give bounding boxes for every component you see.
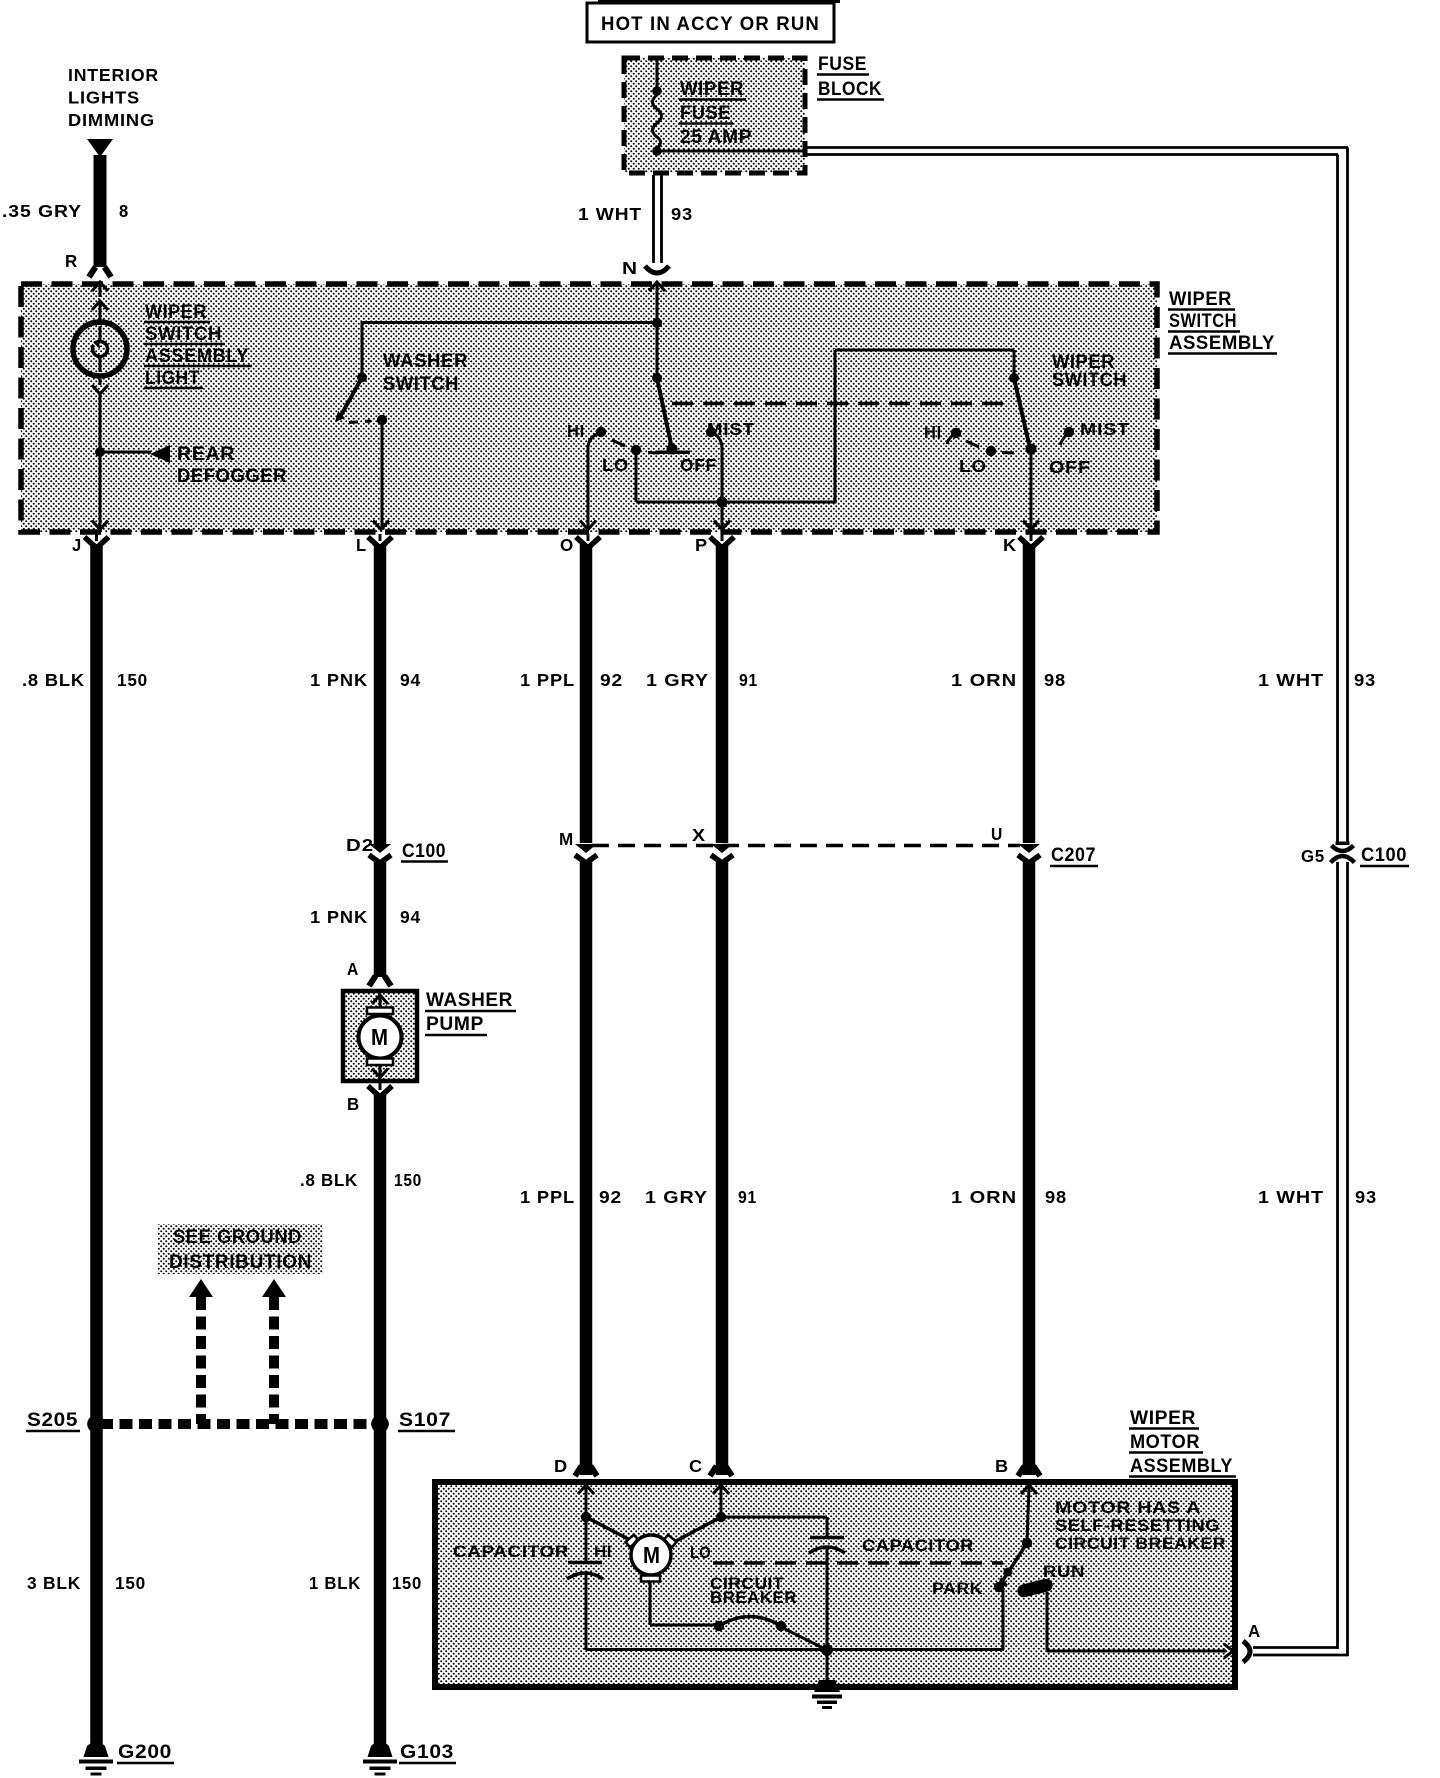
node blade 2 tip at OFF — [1026, 444, 1037, 455]
arrow A exit — [1224, 1644, 1233, 1658]
wire N junction down to wiper switch 1 pivot — [656, 323, 659, 378]
wire O exit arrow — [580, 521, 596, 530]
connector C207 cavity X on P wire — [711, 844, 733, 863]
node fuse bottom — [652, 146, 662, 156]
wire washer contact to L — [381, 420, 384, 527]
wire K exit arrow — [1023, 521, 1039, 530]
wire MIST contact drop — [711, 432, 722, 448]
svg-text:1 GRY: 1 GRY — [646, 670, 709, 690]
switch washer: pivot — [357, 373, 367, 383]
node fuse top — [652, 86, 662, 96]
svg-text:DISTRIBUTION: DISTRIBUTION — [169, 1251, 312, 1273]
connector J at switch box — [85, 534, 109, 548]
splice S205 — [87, 1415, 105, 1433]
svg-text:J: J — [72, 535, 82, 555]
svg-text:1 BLK: 1 BLK — [309, 1573, 361, 1593]
svg-text:ASSEMBLY: ASSEMBLY — [1169, 332, 1275, 354]
svg-text:HI: HI — [594, 1543, 612, 1561]
switch wiper 2 pivot — [1009, 373, 1019, 383]
switch 2 position link dashes — [966, 441, 979, 447]
switch washer: blade — [340, 378, 362, 418]
svg-text:LO: LO — [690, 1544, 711, 1562]
svg-text:91: 91 — [739, 670, 758, 690]
svg-text:93: 93 — [1354, 670, 1376, 690]
svg-text:1 WHT: 1 WHT — [1258, 670, 1324, 690]
wire feed to washer switch — [362, 321, 657, 324]
svg-text:A: A — [1248, 1621, 1261, 1641]
connector C207 dashed line M-X-U — [592, 844, 1020, 848]
svg-text:1 PNK: 1 PNK — [310, 670, 368, 690]
svg-text:MOTOR HAS A: MOTOR HAS A — [1055, 1499, 1201, 1517]
connector K at switch box — [1019, 534, 1043, 548]
node PARK contact — [994, 1582, 1004, 1592]
svg-text:C207: C207 — [1051, 844, 1096, 866]
arrow ground distribution right — [262, 1279, 286, 1297]
svg-text:FUSE: FUSE — [818, 53, 867, 75]
connector P at switch box — [710, 534, 734, 548]
svg-text:SWITCH: SWITCH — [383, 373, 459, 395]
node contact LO switch 1 — [631, 445, 641, 455]
svg-text:A: A — [347, 959, 359, 979]
motor bottom brush — [641, 1576, 660, 1582]
svg-text:REAR: REAR — [177, 443, 235, 465]
svg-text:1 WHT: 1 WHT — [1258, 1187, 1324, 1207]
svg-text:C100: C100 — [1361, 844, 1407, 866]
power feed label box HOT IN ACCY OR RUN — [587, 3, 834, 42]
svg-text:.35 GRY: .35 GRY — [2, 201, 82, 221]
wire .8 BLK 150 (L column below pump) — [374, 1093, 387, 1745]
node C junction — [716, 1512, 726, 1522]
switch 1 position link dashes — [612, 440, 625, 446]
svg-text:SWITCH: SWITCH — [145, 323, 222, 345]
node blade tip at OFF — [667, 444, 678, 455]
washer pump motor entry arrow — [372, 995, 388, 1004]
wire D to motor brush — [586, 1517, 632, 1541]
switch park/run: blade from B — [1001, 1543, 1027, 1583]
wire chevron above lamp — [92, 301, 108, 310]
svg-text:MOTOR: MOTOR — [1130, 1431, 1200, 1453]
svg-text:R: R — [65, 251, 78, 271]
svg-text:SWITCH: SWITCH — [1052, 369, 1127, 391]
svg-text:G5: G5 — [1301, 846, 1325, 866]
wire P drop — [721, 502, 724, 527]
motor M wiper — [631, 1535, 671, 1575]
svg-text:LIGHTS: LIGHTS — [68, 88, 140, 108]
svg-text:98: 98 — [1045, 1187, 1067, 1207]
wire run to A — [1046, 1592, 1049, 1651]
wire bus up to wiper switch 2 — [834, 350, 837, 504]
wire dashed ground bus left vertical — [196, 1297, 206, 1424]
wire HI contact to O — [588, 432, 601, 448]
svg-text:G200: G200 — [118, 1741, 172, 1763]
node contact LO switch 2 — [986, 446, 996, 456]
svg-text:HI: HI — [924, 422, 942, 442]
switch wiper 2 blade — [1014, 378, 1029, 444]
svg-text:CAPACITOR: CAPACITOR — [453, 1543, 569, 1561]
wire 1 PNK 94 (L column upper) — [374, 544, 387, 844]
svg-text:SWITCH: SWITCH — [1169, 310, 1237, 332]
svg-text:B: B — [995, 1456, 1009, 1476]
svg-text:M: M — [371, 1024, 388, 1050]
svg-text:92: 92 — [599, 1187, 622, 1207]
svg-text:SELF-RESETTING: SELF-RESETTING — [1055, 1517, 1220, 1535]
wire lamp to J — [99, 394, 102, 527]
svg-text:WASHER: WASHER — [426, 989, 513, 1011]
wire to rear defogger — [100, 451, 151, 454]
svg-text:C: C — [689, 1456, 703, 1476]
svg-text:MIST: MIST — [1080, 419, 1130, 439]
connector O at switch box — [576, 534, 600, 548]
wire C to motor brush — [676, 1517, 721, 1541]
splice S107 — [371, 1415, 389, 1433]
svg-text:93: 93 — [1355, 1187, 1377, 1207]
svg-text:1 ORN: 1 ORN — [951, 1187, 1017, 1207]
connector R male end — [89, 267, 111, 277]
fuse F wiper fuse 25A squiggle — [653, 95, 662, 148]
connector N male end — [645, 266, 669, 273]
svg-text:3 BLK: 3 BLK — [27, 1573, 81, 1593]
wire 1 WHT 93 bottom run to wiper motor A — [1253, 1646, 1339, 1649]
svg-text:94: 94 — [400, 907, 421, 927]
wire LO/MIST bus — [636, 501, 835, 504]
wiper motor assembly box — [435, 1482, 1235, 1687]
svg-text:S205: S205 — [27, 1409, 78, 1431]
svg-text:DIMMING: DIMMING — [68, 110, 155, 130]
wire 1 WHT 93 fuse to N double-line — [652, 175, 655, 263]
wire blade 2 to K — [1030, 449, 1033, 527]
wire R entry arrow — [92, 282, 108, 291]
connector L at switch box — [368, 534, 392, 548]
svg-text:94: 94 — [400, 670, 421, 690]
washer pump brush top — [367, 1008, 393, 1015]
washer pump brush bottom — [367, 1059, 393, 1066]
node ground junction — [821, 1644, 833, 1656]
ground symbol wiper motor — [826, 1650, 829, 1684]
svg-text:1 ORN: 1 ORN — [951, 670, 1017, 690]
svg-text:98: 98 — [1044, 670, 1066, 690]
svg-text:.8 BLK: .8 BLK — [22, 670, 85, 690]
wire chevron below lamp — [92, 385, 108, 394]
wire dashed ground bus right vertical — [269, 1297, 279, 1424]
wire LO contact drop — [635, 450, 638, 502]
svg-text:G103: G103 — [400, 1741, 454, 1763]
svg-text:N: N — [622, 258, 638, 278]
wire fuse output inside box to right edge — [657, 150, 806, 153]
svg-text:ASSEMBLY: ASSEMBLY — [1130, 1455, 1233, 1477]
svg-text:OFF: OFF — [680, 455, 717, 475]
connector C207 cavity M on O wire — [575, 844, 597, 863]
node P junction — [717, 497, 728, 508]
svg-text:1 WHT: 1 WHT — [578, 204, 642, 224]
svg-text:X: X — [692, 825, 706, 845]
svg-text:PUMP: PUMP — [426, 1013, 484, 1035]
wire park contact to rail — [1002, 1589, 1005, 1650]
node contact HI switch 1 — [596, 427, 606, 437]
svg-text:M: M — [559, 829, 574, 849]
motor M wiper brush right — [664, 1535, 677, 1547]
washer pump exit arrow — [379, 1065, 382, 1076]
wiper switch assembly dashed box — [21, 284, 1157, 532]
cropped box edge at very top — [598, 0, 840, 3]
svg-text:150: 150 — [115, 1573, 146, 1593]
wire J exit arrow — [92, 521, 108, 530]
svg-text:93: 93 — [671, 204, 693, 224]
washer pump box — [343, 991, 417, 1081]
connector B male at motor box — [1018, 1466, 1040, 1476]
wire 1 ORN 98 (K column lower) — [1023, 861, 1036, 1475]
svg-text:S107: S107 — [399, 1409, 451, 1431]
svg-text:INTERIOR: INTERIOR — [68, 65, 159, 85]
svg-text:WIPER: WIPER — [145, 301, 207, 323]
connector C100 inline on L wire — [369, 844, 391, 863]
lamp wiper switch assembly light — [73, 322, 127, 376]
connector A female — [1243, 1641, 1250, 1662]
connector C207 cavity U on K wire — [1018, 844, 1040, 863]
svg-text:D2: D2 — [346, 835, 374, 855]
wire motor to circuit breaker — [649, 1581, 652, 1625]
node contact MIST switch 1 — [706, 427, 716, 437]
node contact MIST switch 2 — [1064, 427, 1074, 437]
svg-text:1 GRY: 1 GRY — [645, 1187, 708, 1207]
wire 1 WHT 93 double-line branch right — [806, 146, 1348, 149]
svg-text:150: 150 — [117, 670, 148, 690]
wire 1 PNK 94 (L column lower) — [374, 861, 387, 977]
ground G200 — [84, 1742, 109, 1757]
svg-text:8: 8 — [119, 201, 129, 221]
connector A male at washer pump — [369, 976, 391, 986]
mechanical link dashed line between switches — [672, 402, 1007, 406]
wire 1 ORN 98 (K column upper) — [1023, 544, 1036, 843]
svg-text:BREAKER: BREAKER — [710, 1589, 797, 1607]
node washer switch output contact — [377, 415, 387, 425]
svg-text:WIPER: WIPER — [680, 78, 744, 100]
svg-text:CAPACITOR: CAPACITOR — [862, 1537, 974, 1555]
svg-text:SEE GROUND: SEE GROUND — [173, 1226, 302, 1248]
wire 1 PPL 92 (O column upper) — [580, 544, 593, 843]
wire .35 GRY 8 — [94, 155, 107, 267]
svg-text:RUN: RUN — [1043, 1563, 1085, 1581]
svg-text:150: 150 — [394, 1170, 422, 1190]
contact RUN pill — [1016, 1577, 1054, 1598]
wire P exit arrow — [714, 521, 730, 530]
svg-text:LO: LO — [602, 455, 629, 475]
switch wiper 1 blade to OFF — [657, 378, 671, 444]
svg-text:92: 92 — [600, 670, 623, 690]
svg-text:.8 BLK: .8 BLK — [300, 1170, 358, 1190]
svg-text:ASSEMBLY: ASSEMBLY — [145, 345, 249, 367]
svg-text:M: M — [643, 1542, 660, 1568]
wire N entry arrow — [649, 282, 665, 291]
svg-text:MIST: MIST — [707, 419, 755, 439]
wire 1 GRY 91 (P column lower) — [716, 861, 729, 1475]
svg-text:O: O — [560, 535, 574, 555]
svg-text:1 PPL: 1 PPL — [520, 1187, 575, 1207]
wire bottom rail — [586, 1648, 1004, 1651]
svg-text:DEFOGGER: DEFOGGER — [177, 465, 287, 487]
svg-text:1 PPL: 1 PPL — [520, 670, 575, 690]
svg-text:LIGHT: LIGHT — [145, 367, 200, 389]
wire .8 BLK 150 (J column) — [90, 544, 103, 1745]
wire 1 WHT 93 right side vertical run — [1346, 148, 1349, 1657]
switch wiper 1 pivot — [652, 373, 662, 383]
svg-text:1 PNK: 1 PNK — [310, 907, 368, 927]
svg-text:WIPER: WIPER — [1169, 288, 1232, 310]
svg-text:WIPER: WIPER — [1130, 1407, 1196, 1429]
wire L exit arrow — [373, 521, 389, 530]
arrow rear defogger — [150, 445, 170, 463]
svg-text:HOT IN ACCY OR RUN: HOT IN ACCY OR RUN — [601, 14, 820, 35]
node rear defogger tap — [95, 447, 105, 457]
mechanical link motor to park switch dashed — [713, 1561, 1003, 1565]
wire 1 GRY 91 (P column upper) — [716, 544, 729, 843]
svg-text:91: 91 — [738, 1187, 757, 1207]
ground G103 — [368, 1742, 393, 1757]
motor M wiper brush left — [626, 1535, 639, 1547]
connector C100 cavity G5 on WHT wire — [1334, 843, 1351, 862]
wire dashed ground bus horizontal — [100, 1419, 372, 1429]
svg-text:D: D — [554, 1456, 568, 1476]
svg-text:K: K — [1003, 535, 1017, 555]
arrow from interior lights dimming — [87, 139, 113, 157]
see ground distribution note box — [158, 1224, 323, 1274]
node N junction to washer switch feed — [652, 318, 662, 328]
svg-text:U: U — [991, 824, 1003, 844]
svg-text:P: P — [695, 535, 708, 555]
svg-text:PARK: PARK — [932, 1580, 983, 1598]
fuse block dashed box — [624, 58, 805, 173]
connector D male at motor box — [575, 1466, 597, 1476]
svg-text:BLOCK: BLOCK — [818, 78, 882, 100]
motor M washer pump — [359, 1016, 402, 1059]
node contact HI switch 2 — [951, 428, 961, 438]
node D junction — [581, 1512, 591, 1522]
svg-text:B: B — [347, 1094, 360, 1114]
svg-text:C100: C100 — [402, 840, 446, 862]
svg-text:L: L — [356, 535, 367, 555]
svg-text:FUSE: FUSE — [680, 102, 731, 124]
arrow ground distribution left — [189, 1279, 213, 1297]
svg-text:25 AMP: 25 AMP — [680, 126, 752, 148]
svg-text:OFF: OFF — [1049, 457, 1091, 477]
svg-text:150: 150 — [392, 1573, 422, 1593]
wire 1 PPL 92 (O column lower) — [580, 861, 593, 1475]
svg-text:LO: LO — [959, 456, 987, 476]
svg-text:WASHER: WASHER — [383, 350, 468, 372]
svg-text:CIRCUIT BREAKER: CIRCUIT BREAKER — [1055, 1535, 1226, 1553]
wire fuse top lead — [656, 57, 659, 91]
connector B at washer pump — [368, 1083, 392, 1097]
switch washer: link dash — [349, 421, 371, 423]
connector C male at motor box — [710, 1466, 732, 1476]
svg-text:HI: HI — [567, 421, 585, 441]
